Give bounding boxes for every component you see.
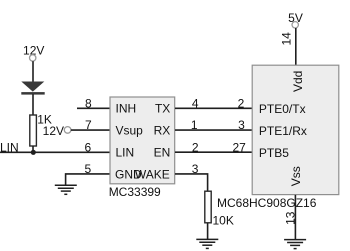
svg-text:3: 3 — [192, 162, 199, 176]
svg-text:13: 13 — [283, 211, 297, 225]
svg-text:2: 2 — [238, 96, 245, 110]
svg-text:Vss: Vss — [289, 166, 303, 186]
wire 5V to Vdd — [295, 28, 297, 66]
svg-text:3: 3 — [238, 118, 245, 132]
microcontroller U2 MC68HC908GZ16 body — [252, 65, 339, 194]
svg-text:WAKE: WAKE — [135, 167, 170, 181]
wire INH stub — [77, 107, 110, 109]
svg-text:INH: INH — [116, 102, 137, 116]
svg-text:TX: TX — [155, 102, 170, 116]
svg-text:PTE1/Rx: PTE1/Rx — [259, 124, 307, 138]
wire EN to PTB5 — [175, 151, 252, 153]
ground (under 10K) — [196, 239, 218, 248]
wire RX to PTE1/Rx — [175, 129, 252, 131]
ground (MC33399 GND) — [55, 185, 77, 194]
ground (under Vss) — [284, 240, 306, 249]
svg-text:4: 4 — [192, 96, 199, 110]
wire TX to PTE0/Tx — [175, 107, 252, 109]
resistor R1 1K — [30, 115, 37, 146]
svg-text:10K: 10K — [213, 213, 234, 227]
svg-text:6: 6 — [85, 140, 92, 154]
wire 10K to ground — [207, 223, 209, 240]
12V supply pin circle — [30, 55, 36, 61]
svg-text:RX: RX — [154, 123, 171, 137]
resistor R2 10K — [205, 191, 211, 223]
wire 12V to diode — [32, 61, 34, 82]
diode D1 — [21, 82, 44, 95]
wire GND pin — [66, 174, 110, 185]
wire resistor to LIN net — [32, 146, 34, 153]
junction on LIN net — [31, 150, 36, 155]
svg-text:EN: EN — [154, 145, 171, 159]
svg-text:7: 7 — [85, 118, 92, 132]
wire diode to resistor — [32, 94, 34, 115]
svg-text:8: 8 — [85, 96, 92, 110]
svg-text:LIN: LIN — [116, 145, 135, 159]
svg-text:2: 2 — [192, 140, 199, 154]
svg-text:PTE0/Tx: PTE0/Tx — [259, 102, 306, 116]
svg-text:MC68HC908GZ16: MC68HC908GZ16 — [217, 196, 317, 210]
12V Vsup pin circle — [64, 127, 71, 134]
svg-text:14: 14 — [280, 32, 294, 46]
wire Vss to ground — [294, 195, 296, 240]
svg-text:PTB5: PTB5 — [259, 146, 289, 160]
svg-text:1: 1 — [191, 118, 198, 132]
wire Vsup — [71, 129, 110, 131]
op-amp U1 MC33399 body — [110, 97, 175, 184]
svg-text:Vdd: Vdd — [291, 71, 305, 92]
wire LIN net — [0, 151, 110, 153]
svg-text:27: 27 — [232, 140, 246, 154]
svg-text:MC33399: MC33399 — [109, 185, 161, 199]
svg-text:5V: 5V — [288, 11, 303, 25]
svg-text:Vsup: Vsup — [116, 123, 144, 137]
5V pin circle — [292, 22, 298, 28]
wire WAKE to 10K — [175, 174, 208, 191]
svg-text:12V: 12V — [43, 124, 64, 138]
